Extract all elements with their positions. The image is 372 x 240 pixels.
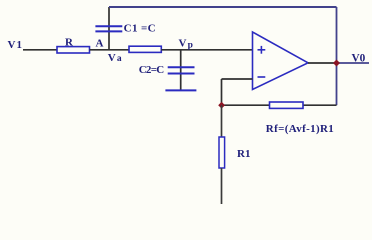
resistor R1 xyxy=(219,137,225,168)
svg-text:C2=C: C2=C xyxy=(139,64,165,76)
wire op-amp inverting input xyxy=(222,78,253,80)
svg-text:Rf=(Avf-1)R1: Rf=(Avf-1)R1 xyxy=(266,123,334,135)
wire V1 lead xyxy=(23,49,57,51)
wire node Vp down through C2 to ground xyxy=(180,50,182,91)
svg-text:C1 =C: C1 =C xyxy=(124,23,156,35)
svg-text:Va: Va xyxy=(108,52,122,64)
op-amp U1 xyxy=(253,32,309,90)
svg-text:Vp: Vp xyxy=(179,38,193,51)
svg-text:R: R xyxy=(65,37,74,49)
resistor R xyxy=(57,47,90,53)
wire node A up through C1 to top rail xyxy=(108,7,110,50)
svg-text:R1: R1 xyxy=(237,148,250,160)
wire second resistor to op-amp non-inverting input xyxy=(161,49,252,51)
wire R1 bottom lead xyxy=(221,168,223,204)
wire feedback node down to R1 xyxy=(221,105,223,137)
svg-text:V1: V1 xyxy=(8,39,23,51)
capacitor C2 xyxy=(168,67,195,73)
node feedback junction xyxy=(218,102,225,109)
resistor R (second, unlabeled) xyxy=(129,46,161,52)
resistor Rf xyxy=(270,102,304,108)
capacitor C1 xyxy=(95,26,122,31)
wire R to node A to second resistor xyxy=(90,49,130,51)
wire op-amp output to V0 xyxy=(308,62,337,64)
svg-text:V0: V0 xyxy=(352,53,366,65)
wire top rail xyxy=(109,6,337,8)
wire feedback horizontal xyxy=(222,104,337,106)
node V0 junction xyxy=(333,60,340,67)
svg-text:A: A xyxy=(96,38,104,50)
wire right vertical from top rail down to feedback xyxy=(336,7,338,105)
ground xyxy=(165,89,196,91)
wire inverting input down to feedback node xyxy=(221,79,223,105)
